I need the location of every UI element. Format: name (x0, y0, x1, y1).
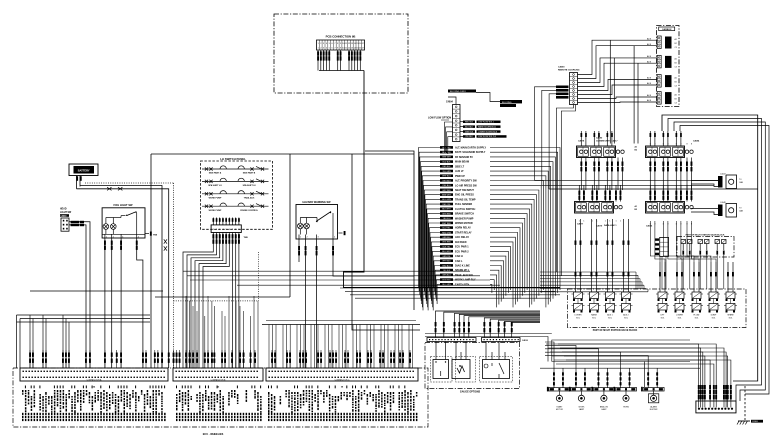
svg-text:1: 1 (583, 221, 584, 223)
svg-text:ALARM: ALARM (650, 405, 657, 408)
valve block lower (PART OF MULTI STATION VALVE BLOCK) (568, 289, 747, 332)
connector gauge bar 1 (427, 338, 476, 342)
svg-text:A4 B: A4 B (647, 60, 652, 63)
svg-text:A1: A1 (635, 146, 637, 149)
wire bundle clusters to TM4 1 (691, 181, 718, 187)
wire bundle cluster interconnect verticals (581, 176, 691, 190)
svg-text:A4 B: A4 B (647, 82, 652, 85)
svg-text:A4 B: A4 B (647, 43, 652, 46)
svg-text:A4 B: A4 B (647, 77, 652, 80)
svg-text:GRY RED: GRY RED (442, 190, 451, 192)
connector LH panel (9-way) (211, 218, 241, 233)
wire rail lower-right 2 (540, 367, 700, 369)
svg-text:SPARE: SPARE (727, 314, 734, 317)
svg-text:SOL: SOL (712, 317, 716, 319)
wire labels under upper-left cluster (580, 158, 623, 177)
svg-text:A4 B: A4 B (647, 37, 652, 40)
svg-text:WASHER PUMP: WASHER PUMP (455, 217, 474, 220)
svg-text:MAIN BEAM: MAIN BEAM (455, 161, 469, 164)
svg-text:C3: C3 (675, 47, 677, 49)
svg-text:A4 B: A4 B (647, 99, 652, 102)
svg-text:HORN RELAY: HORN RELAY (455, 227, 471, 230)
svg-text:C4047: C4047 (720, 174, 726, 176)
wire battery feed 2 (twisted) (77, 189, 169, 368)
svg-text:A1: A1 (675, 77, 677, 80)
svg-text:SOL: SOL (624, 317, 628, 319)
svg-text:CAN L: CAN L (455, 260, 463, 263)
svg-text:B2: B2 (675, 43, 677, 45)
connector C4094 LOW FLOW OPTION (428, 100, 460, 141)
wire bundle above upper clusters (581, 131, 682, 146)
svg-text:SOL: SOL (661, 317, 665, 319)
svg-text:SIDE PANT B: SIDE PANT B (243, 172, 256, 175)
wire labels LH panel outputs (212, 233, 248, 251)
svg-text:HEAD: HEAD (60, 208, 67, 211)
svg-text:ECU PWR 1: ECU PWR 1 (455, 246, 469, 249)
wire bus band center (harness run) (340, 288, 560, 298)
svg-text:CRUISE CONTROL: CRUISE CONTROL (240, 210, 259, 212)
connector ECU strip B (173, 368, 263, 388)
svg-text:SPA SHIFT HI: SPA SHIFT HI (243, 184, 256, 187)
svg-text:BLU YEL: BLU YEL (443, 228, 451, 230)
svg-text:SPA SHIFT LO: SPA SHIFT LO (208, 184, 222, 187)
wire bundle hazard switch outputs (298, 239, 414, 368)
svg-text:IGN FEED: IGN FEED (455, 241, 467, 244)
wire labels below PCB connector (317, 51, 361, 60)
svg-text:M: M (459, 364, 461, 368)
svg-text:SPARE I/P 1: SPARE I/P 1 (455, 269, 470, 272)
svg-text:ALT. PRIORITY SW: ALT. PRIORITY SW (455, 180, 477, 183)
wire data bus rail 2 (542, 184, 714, 186)
svg-text:B2: B2 (675, 99, 677, 101)
svg-text:HAZARD WARNING SW: HAZARD WARNING SW (302, 201, 331, 204)
wire data bus rail 1 (535, 179, 719, 181)
wire bundle clusters to valve block (575, 219, 734, 292)
svg-text:CONNECTOR B: CONNECTOR B (211, 379, 226, 381)
svg-text:YEL BLU: YEL BLU (443, 218, 451, 220)
svg-text:AUX 2: AUX 2 (623, 314, 628, 317)
svg-text:ACC RELAY: ACC RELAY (455, 236, 469, 239)
wire bundle mid verticals to ECU strips (186, 296, 413, 368)
svg-text:B2: B2 (635, 209, 637, 211)
twist symbol T4 (164, 246, 167, 250)
svg-text:GRN RED: GRN RED (442, 213, 451, 215)
wire bundle into bottom-right connector (546, 344, 732, 408)
svg-text:BLU GRN: BLU GRN (442, 199, 451, 201)
svg-text:LOW FLOW SOL 2 A: LOW FLOW SOL 2 A (478, 135, 497, 138)
connector ECU harness label column (440, 146, 487, 286)
twist symbol T3 (164, 239, 167, 243)
connector ECU strip A (20, 368, 168, 388)
svg-text:RF SENSOR 5V: RF SENSOR 5V (455, 156, 473, 159)
wire rail x290 (155, 154, 290, 297)
wire bundle remote coupling to carbox (578, 37, 658, 102)
svg-text:A1: A1 (675, 38, 677, 41)
svg-text:BLK YEL: BLK YEL (443, 246, 451, 248)
svg-text:LAMP: LAMP (601, 408, 607, 411)
wire bundle label column right exits (490, 148, 560, 308)
panel LH SWITCH PANEL enclosure (200, 157, 272, 230)
switch row 3 (LH panel) (202, 191, 269, 200)
svg-text:BLK RING C4091: BLK RING C4091 (450, 91, 467, 93)
svg-text:CLUTCH SWITCH: CLUTCH SWITCH (455, 208, 476, 211)
twist symbol T1 (107, 187, 111, 190)
wire bundle gauge options feeds (435, 311, 540, 338)
svg-text:BLU RING: BLU RING (502, 102, 512, 104)
svg-text:YEL GRN: YEL GRN (442, 171, 451, 173)
text columns under ECU strips (pin tables) (22, 386, 417, 422)
twist symbol T2 (118, 187, 122, 190)
actuator ALARM BUZZER (641, 368, 664, 411)
svg-text:FUEL SENDER: FUEL SENDER (455, 203, 472, 206)
solenoid group A (valve block) (572, 292, 633, 319)
wire verticals left of ECU (17, 291, 164, 368)
svg-text:8: 8 (686, 144, 687, 146)
wire rail y151 (365, 151, 414, 310)
svg-text:WHT BLU: WHT BLU (442, 176, 451, 178)
svg-text:C3: C3 (675, 103, 677, 105)
wire rail x352 (352, 154, 420, 330)
wire bundle low flow to fan (445, 122, 453, 154)
svg-text:START: START (556, 405, 563, 408)
wire headlight 1 (69, 221, 90, 368)
svg-text:BRN WHT: BRN WHT (442, 195, 452, 197)
terminal block cluster lower-right (C4086) (635, 202, 694, 228)
switch FOG LIGHT SW (102, 203, 158, 238)
terminal block cluster upper-right (C4084) (635, 140, 700, 158)
svg-text:BATTERY: BATTERY (78, 169, 90, 173)
svg-text:SOL: SOL (729, 317, 733, 319)
svg-text:LH SWITCH PANEL: LH SWITCH PANEL (220, 157, 246, 161)
valve block upper (PART OF MULTI STATION VALVE BLOCK) (677, 233, 734, 289)
svg-text:SOL: SOL (695, 317, 699, 319)
switch HAZARD WARNING SW (296, 201, 346, 239)
wire dotted run (screened cable) (174, 252, 259, 301)
svg-text:ECU - WHEELIES: ECU - WHEELIES (203, 433, 224, 436)
connector C4079 (valve feed) (655, 237, 669, 289)
svg-text:REMOTE COUPLING: REMOTE COUPLING (558, 70, 580, 72)
svg-text:1: 1 (615, 221, 616, 223)
terminal block cluster lower-left (C4077) (575, 202, 623, 228)
svg-text:BUZZER: BUZZER (650, 409, 658, 411)
svg-text:BLK WHT: BLK WHT (442, 209, 451, 211)
svg-text:PART OF MULTI STATION VALVE BL: PART OF MULTI STATION VALVE BLOCK (593, 329, 638, 332)
enclosure dash-dot box (PCB assembly) (274, 14, 408, 93)
connector bottom-right junction (696, 401, 736, 413)
svg-text:RED BLK: RED BLK (465, 122, 474, 124)
wire bus band right mid (540, 272, 648, 292)
svg-text:HORN: HORN (623, 406, 629, 408)
wire bus band center upper (183, 271, 500, 285)
wire rail lower-right 1 (552, 340, 690, 362)
svg-text:LOWER SOLENOID A: LOWER SOLENOID A (478, 130, 498, 133)
wire bundle lower-right cluster to valve group B (650, 221, 716, 262)
wire labels above lower-left cluster (578, 185, 621, 202)
svg-text:BLU BLK: BLU BLK (443, 162, 452, 164)
svg-text:C0450: C0450 (61, 214, 68, 217)
svg-text:SIDE LT: SIDE LT (455, 165, 465, 168)
switch HEAD LIGHT SW connector (60, 208, 72, 232)
svg-text:TRAIL AUX: TRAIL AUX (244, 196, 255, 199)
svg-text:ORG RED: ORG RED (442, 242, 451, 244)
module TM4 unit 2 (718, 202, 744, 217)
svg-text:LAMP: LAMP (579, 408, 585, 411)
module CARBOX (657, 26, 680, 107)
svg-text:WHT RED: WHT RED (442, 223, 451, 225)
svg-text:C3: C3 (675, 66, 677, 68)
svg-text:SEAT SW INPUT: SEAT SW INPUT (455, 189, 474, 192)
svg-text:TRAIL AUX SOL: TRAIL AUX SOL (455, 274, 474, 277)
svg-text:AUX 1: AUX 1 (607, 314, 612, 317)
svg-text:1: 1 (609, 221, 610, 223)
svg-text:GRN BLK: GRN BLK (465, 131, 474, 133)
svg-text:WORK PUMP: WORK PUMP (209, 197, 222, 199)
svg-text:1: 1 (620, 221, 621, 223)
wire headlight 2 (69, 224, 86, 368)
wire bundle label column left fan (419, 148, 441, 311)
svg-text:B2: B2 (675, 62, 677, 64)
svg-text:GAUGE OPTIONS: GAUGE OPTIONS (460, 390, 481, 393)
svg-text:AUX LT: AUX LT (455, 170, 464, 173)
svg-text:C4094: C4094 (446, 100, 453, 103)
gauge instrument 3 (switch) (483, 342, 510, 379)
svg-text:C3: C3 (675, 86, 677, 88)
svg-text:C4079: C4079 (596, 225, 603, 228)
svg-text:LIGHT SW: LIGHT SW (60, 212, 72, 214)
svg-text:1: 1 (579, 221, 580, 223)
svg-text:A1: A1 (675, 57, 677, 60)
svg-text:RED BLK: RED BLK (442, 166, 451, 168)
switch row 4 (LH panel) (202, 203, 269, 212)
svg-text:SOL: SOL (678, 317, 682, 319)
module ECU enclosure (13, 368, 428, 436)
svg-text:1: 1 (592, 221, 593, 223)
gauge instrument 2 (motor) (452, 342, 470, 379)
battery B1 (69, 164, 98, 189)
connector ECU strip C (266, 368, 418, 388)
svg-text:LOW FLOW OPTION: LOW FLOW OPTION (428, 117, 451, 120)
svg-text:RED GRN: RED GRN (442, 232, 451, 234)
svg-text:A1: A1 (675, 94, 677, 97)
svg-text:LOW FLOW SOL 1: LOW FLOW SOL 1 (478, 122, 494, 124)
wire data bus rail 3 (549, 188, 758, 190)
wire battery feed 1 (80, 186, 162, 369)
svg-text:DIAG K LINE: DIAG K LINE (455, 265, 470, 268)
svg-text:ENG OIL PRESS: ENG OIL PRESS (455, 194, 474, 197)
svg-text:WHT BLK: WHT BLK (442, 261, 451, 263)
actuator WORK LAMP (569, 368, 592, 411)
svg-text:C4084: C4084 (693, 140, 700, 143)
wire PCB main feed down (344, 71, 561, 288)
wire bundle actuator feeds (545, 342, 648, 387)
svg-text:B2: B2 (675, 82, 677, 84)
wire bundle remote coupling drops (535, 87, 576, 276)
svg-text:MOTOR: MOTOR (556, 409, 564, 411)
svg-text:YEL BLK: YEL BLK (465, 136, 473, 138)
svg-text:C4090: C4090 (558, 65, 565, 68)
solenoid group B (valve block) (656, 292, 737, 319)
connector gauge bar 2 (482, 338, 529, 343)
module gauge options enclosure (425, 343, 520, 394)
wire bundle clusters to TM4 2 (691, 209, 718, 215)
svg-text:GRN WHT: GRN WHT (442, 157, 452, 159)
svg-text:RED YEL: RED YEL (442, 204, 450, 206)
wire bundle carbox feeds down (610, 40, 638, 143)
svg-text:FLOAT: FLOAT (694, 314, 701, 317)
wire rail gauge-to-lamps (425, 334, 552, 362)
wire bundle LH panel to ECU (staircase) (183, 250, 239, 368)
connector PCB CONNECTION 9B (317, 35, 366, 51)
svg-text:RAISE: RAISE (591, 314, 597, 317)
actuator HORN (614, 368, 637, 408)
svg-text:PCB CONNECTION 9B: PCB CONNECTION 9B (326, 35, 356, 39)
svg-text:START RELAY: START RELAY (455, 232, 472, 235)
svg-text:SOL: SOL (608, 317, 612, 319)
wire bundle fog light switch outputs (104, 238, 143, 368)
svg-text:C0300: C0300 (752, 421, 759, 423)
wire bundle from PCB connector to bus (318, 50, 364, 71)
svg-text:BRAKE SWITCH: BRAKE SWITCH (455, 213, 474, 216)
svg-text:RED BLU: RED BLU (442, 265, 451, 267)
wire battery dotted feed (85, 183, 174, 368)
svg-text:DUMP: DUMP (711, 315, 717, 317)
svg-text:RAISE SOLENOID A: RAISE SOLENOID A (478, 125, 496, 128)
wire collector strip C (262, 321, 420, 325)
svg-text:CONNECTOR A: CONNECTOR A (87, 378, 102, 381)
svg-text:LOWER: LOWER (676, 315, 684, 317)
svg-text:ECU PWR 2: ECU PWR 2 (455, 250, 469, 253)
svg-text:SIDE PANT A: SIDE PANT A (209, 172, 222, 175)
svg-text:TRANS OIL TEMP: TRANS OIL TEMP (455, 198, 476, 201)
svg-text:CAN H: CAN H (455, 255, 463, 258)
module TM4 unit 1 (718, 174, 744, 189)
svg-text:PNK BLU: PNK BLU (442, 185, 451, 187)
actuator START MOTOR (547, 368, 570, 411)
svg-text:ORG BLK: ORG BLK (442, 180, 451, 182)
ground symbol (chassis earth) (737, 386, 763, 425)
svg-text:LO AIR PRESS SW: LO AIR PRESS SW (455, 184, 477, 187)
svg-text:A4 B: A4 B (647, 55, 652, 58)
svg-text:FOG LIGHT SW: FOG LIGHT SW (113, 203, 133, 207)
svg-text:A1: A1 (635, 205, 637, 208)
gauge instrument 1 (433, 342, 449, 379)
wire labels under upper-right cluster (649, 158, 692, 177)
svg-text:WIPER MOTOR: WIPER MOTOR (455, 222, 473, 225)
svg-text:DATA LINK 1: DATA LINK 1 (604, 224, 617, 227)
svg-text:SOL: SOL (592, 317, 596, 319)
switch row 2 (LH panel) (202, 178, 269, 187)
svg-text:ALT. MAIN EARTH SUPPLY: ALT. MAIN EARTH SUPPLY (455, 147, 487, 150)
connector C4090 REMOTE COUPLING (556, 65, 580, 104)
wire labels above ECU strips (29, 350, 411, 368)
svg-text:PWR UP: PWR UP (455, 175, 465, 178)
svg-text:GRN YEL: GRN YEL (442, 256, 450, 258)
wire labels above lower-right cluster (649, 185, 692, 202)
svg-text:LOWER: LOWER (575, 315, 583, 317)
svg-text:8: 8 (691, 144, 692, 146)
wire label BLK RING (C4091) (448, 90, 522, 108)
terminal block cluster upper-left (COMMS UNITS C4017) (577, 137, 625, 158)
svg-text:C4010: C4010 (522, 339, 529, 342)
svg-text:B2: B2 (635, 150, 637, 152)
svg-text:BEACON: BEACON (600, 405, 609, 408)
svg-text:C4048: C4048 (720, 202, 726, 204)
svg-text:BATT. SOLENOID SUPPLY: BATT. SOLENOID SUPPLY (455, 151, 486, 154)
actuator BEACON LAMP (591, 368, 614, 411)
svg-text:CARBOX: CARBOX (662, 28, 672, 31)
svg-text:WORK: WORK (578, 406, 585, 408)
wire labels low flow outputs (460, 121, 507, 139)
svg-text:BLU WHT: BLU WHT (442, 251, 451, 253)
svg-text:CONNECTOR C: CONNECTOR C (335, 379, 350, 381)
svg-text:WORK PUMP: WORK PUMP (209, 210, 222, 212)
svg-text:SOL: SOL (576, 317, 580, 319)
wire rail y154 (151, 154, 414, 368)
switch row 1 (LH panel) (202, 166, 269, 175)
svg-text:1: 1 (605, 221, 606, 223)
svg-text:BLU BLK: BLU BLK (465, 126, 474, 128)
wire bundle right edge rails (662, 115, 769, 401)
svg-text:A4 B: A4 B (647, 94, 652, 97)
svg-text:GRN BLK: GRN BLK (442, 237, 451, 239)
